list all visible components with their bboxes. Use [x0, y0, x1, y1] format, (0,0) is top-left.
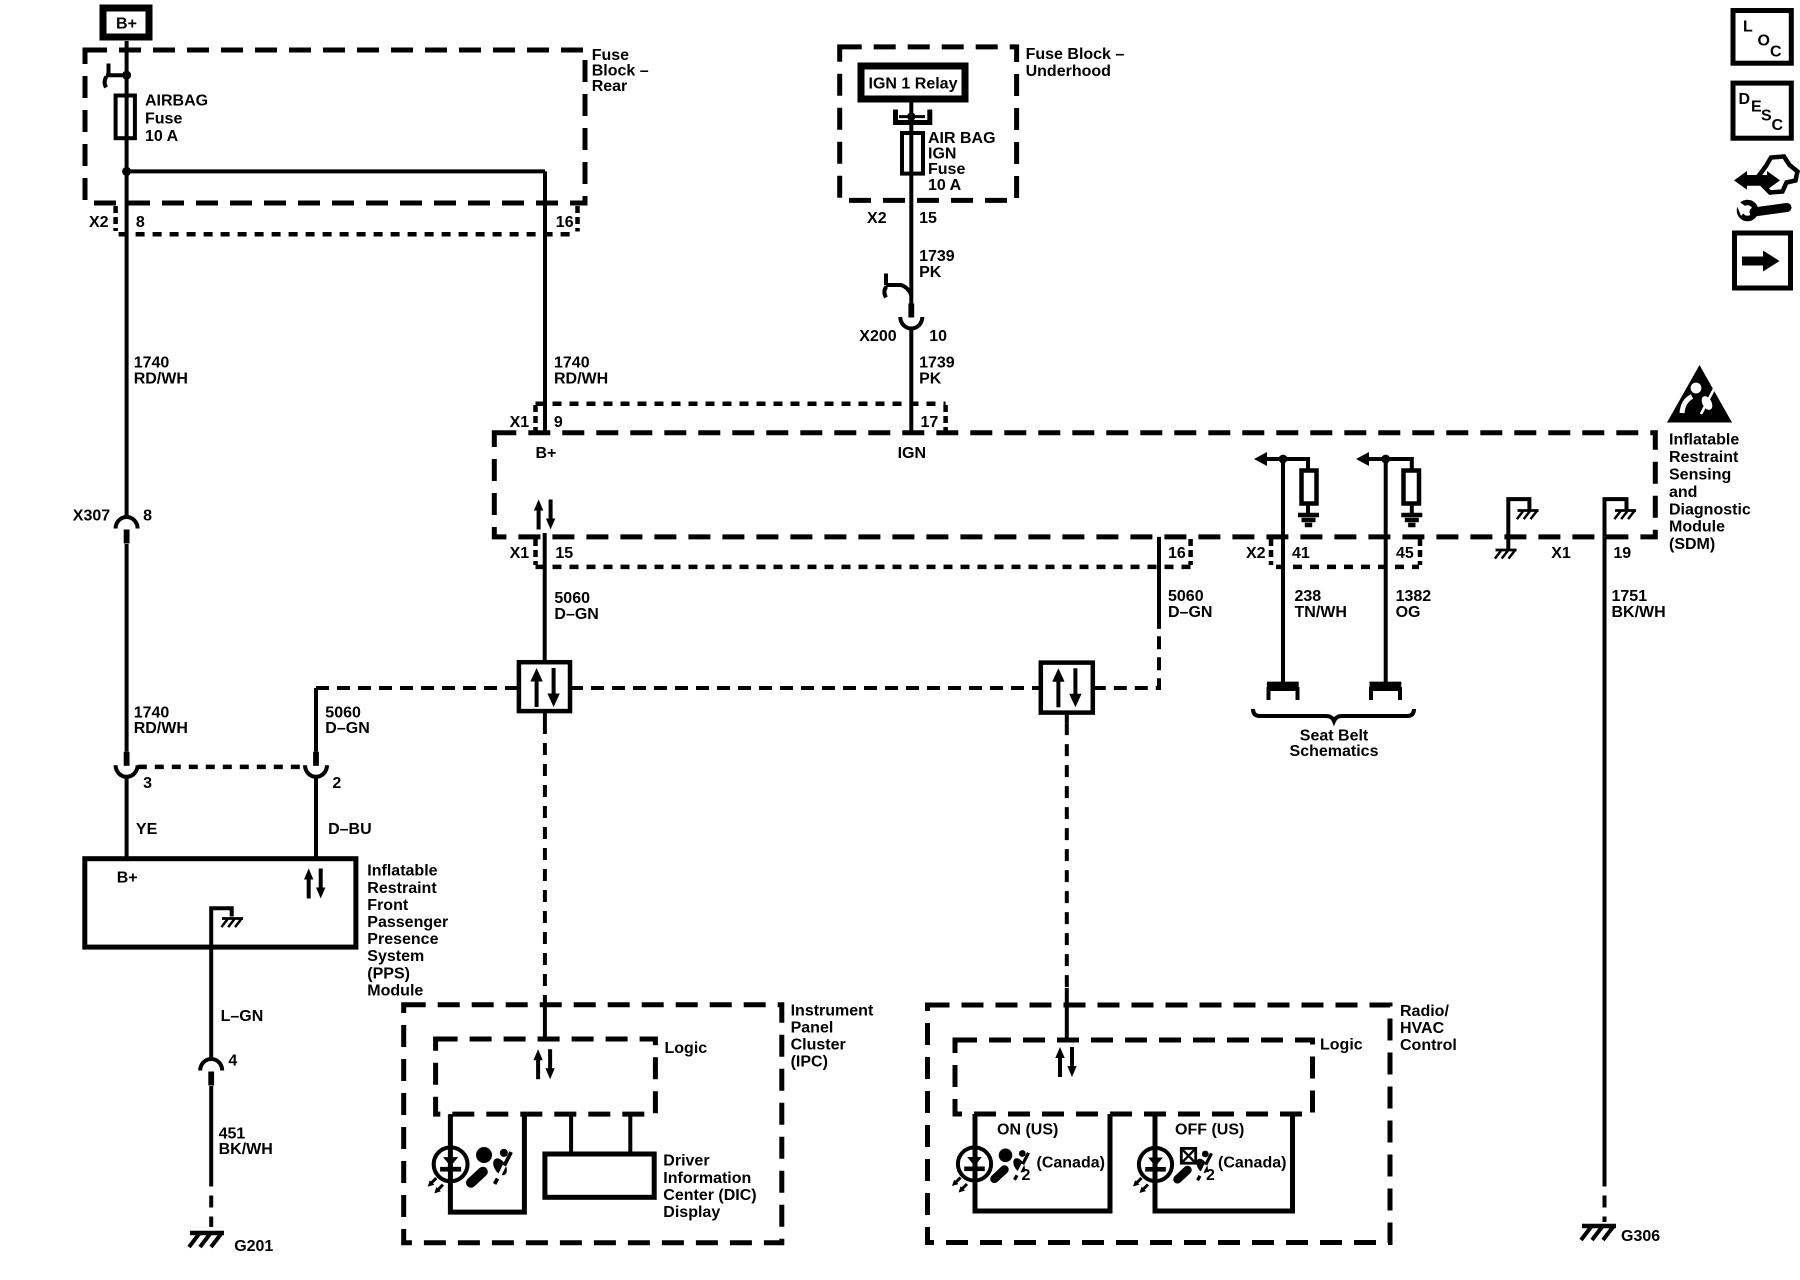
svg-text:19: 19	[1613, 545, 1631, 562]
svg-text:O: O	[1758, 33, 1770, 50]
PPS serial data arrows	[304, 869, 325, 899]
svg-text:10 A: 10 A	[928, 177, 962, 194]
svg-text:Instrument: Instrument	[791, 1003, 874, 1020]
IPC airbag telltale icon	[471, 1147, 511, 1184]
dashed wire serial to Radio	[1065, 713, 1069, 724]
svg-text:10: 10	[929, 328, 947, 345]
svg-text:Rear: Rear	[592, 78, 628, 95]
svg-text:8: 8	[143, 508, 152, 525]
IPC logic dashed box	[436, 1039, 656, 1114]
svg-text:1740: 1740	[134, 704, 170, 721]
serial data box right	[1041, 663, 1093, 713]
Radio ON telltale cell	[975, 1114, 1110, 1211]
connector 4	[200, 1059, 222, 1086]
svg-text:Radio/: Radio/	[1400, 1003, 1449, 1020]
dashed wire to G201	[209, 1175, 213, 1228]
svg-text:X2: X2	[89, 214, 109, 231]
svg-text:1740: 1740	[134, 354, 170, 371]
svg-text:and: and	[1669, 484, 1697, 501]
svg-text:41: 41	[1292, 545, 1310, 562]
svg-text:Display: Display	[663, 1204, 720, 1221]
svg-text:Front: Front	[367, 897, 409, 914]
svg-text:L: L	[1743, 19, 1753, 36]
svg-text:D–GN: D–GN	[325, 720, 369, 737]
connector X307 pin 8	[116, 517, 138, 544]
svg-text:System: System	[367, 948, 424, 965]
wire YE	[125, 777, 129, 858]
ground G201	[189, 1233, 224, 1247]
DIC display box	[571, 1114, 630, 1154]
svg-text:2: 2	[1022, 1167, 1031, 1184]
dashed wire serial to IPC	[543, 711, 547, 722]
svg-text:D: D	[1739, 91, 1751, 108]
svg-text:Inflatable: Inflatable	[367, 863, 437, 880]
svg-text:ON (US): ON (US)	[997, 1122, 1058, 1139]
seat belt terminal 41	[1267, 682, 1299, 688]
SDM bottom pin row	[536, 565, 1191, 570]
svg-text:Panel: Panel	[791, 1020, 834, 1037]
svg-text:S: S	[1761, 108, 1772, 125]
svg-text:X2: X2	[1246, 545, 1266, 562]
clip lead at X200	[884, 274, 888, 286]
svg-text:4: 4	[228, 1053, 237, 1070]
svg-text:Seat Belt: Seat Belt	[1300, 727, 1369, 744]
connector X200 pin 10	[900, 304, 922, 329]
dashed wire to G306	[1603, 1175, 1607, 1223]
connector 3 PPS	[116, 752, 138, 777]
svg-text:BK/WH: BK/WH	[219, 1141, 273, 1158]
svg-text:Diagnostic: Diagnostic	[1669, 501, 1751, 518]
svg-text:1739: 1739	[919, 248, 955, 265]
Radio logic dashed box	[955, 1040, 1313, 1114]
wire 5060 pin 16	[1157, 537, 1161, 629]
fuse block rear dashed box	[85, 50, 585, 203]
svg-text:2: 2	[332, 775, 341, 792]
svg-text:BK/WH: BK/WH	[1612, 604, 1666, 621]
svg-text:Fuse: Fuse	[145, 110, 182, 127]
svg-text:Information: Information	[663, 1170, 751, 1187]
svg-text:X1: X1	[510, 545, 530, 562]
svg-text:8: 8	[136, 214, 145, 231]
svg-text:15: 15	[555, 545, 573, 562]
svg-text:IGN 1 Relay: IGN 1 Relay	[869, 76, 958, 93]
svg-text:Underhood: Underhood	[1026, 63, 1111, 80]
svg-text:Fuse Block –: Fuse Block –	[1026, 46, 1125, 63]
svg-text:C: C	[1772, 117, 1784, 134]
svg-text:Schematics: Schematics	[1290, 743, 1379, 760]
svg-text:238: 238	[1295, 588, 1322, 605]
svg-text:Inflatable: Inflatable	[1669, 432, 1739, 449]
svg-text:X1: X1	[510, 414, 530, 431]
svg-text:1751: 1751	[1612, 588, 1648, 605]
SDM internal chassis ground hook pin 19	[1605, 499, 1627, 537]
svg-text:RD/WH: RD/WH	[134, 720, 188, 737]
seat belt terminal 45	[1370, 682, 1402, 688]
svg-text:9: 9	[554, 414, 563, 431]
wire 1740 left vertical B+ feed	[125, 41, 129, 517]
svg-text:Cluster: Cluster	[791, 1037, 846, 1054]
IPC LED indicator	[428, 1147, 468, 1193]
svg-text:Driver: Driver	[663, 1153, 709, 1170]
svg-text:Sensing: Sensing	[1669, 467, 1731, 484]
svg-text:Fuse: Fuse	[928, 161, 965, 178]
svg-text:2: 2	[1206, 1167, 1215, 1184]
svg-text:(Canada): (Canada)	[1037, 1155, 1105, 1172]
svg-text:PK: PK	[919, 264, 942, 281]
SDM internal net 41: arrow resistor ground	[1262, 459, 1308, 471]
svg-text:(IPC): (IPC)	[791, 1054, 828, 1071]
svg-text:X2: X2	[867, 210, 887, 227]
SDM internal net 45: arrow resistor ground	[1363, 459, 1412, 471]
svg-text:(Canada): (Canada)	[1218, 1155, 1286, 1172]
svg-text:17: 17	[921, 414, 939, 431]
connector 2 PPS	[305, 752, 327, 777]
svg-text:16: 16	[556, 214, 574, 231]
PPS module box	[85, 859, 356, 947]
svg-text:L–GN: L–GN	[221, 1008, 264, 1025]
wire D-BU	[314, 777, 318, 858]
svg-text:C: C	[1770, 44, 1782, 61]
svg-text:5060: 5060	[1168, 588, 1204, 605]
wire 451 BK/WH	[209, 1086, 213, 1175]
svg-text:Center (DIC): Center (DIC)	[663, 1187, 756, 1204]
svg-text:IGN: IGN	[898, 445, 926, 462]
svg-text:3: 3	[143, 775, 152, 792]
svg-text:451: 451	[219, 1125, 246, 1142]
serial data dashed bus left run	[316, 686, 519, 690]
svg-text:AIRBAG: AIRBAG	[145, 93, 208, 110]
svg-text:Fuse: Fuse	[592, 47, 629, 64]
IPC telltale cell	[450, 1114, 524, 1212]
svg-text:Module: Module	[367, 982, 423, 999]
wire 1751 pin 19	[1603, 537, 1607, 1175]
svg-text:OFF (US): OFF (US)	[1175, 1122, 1244, 1139]
serial data dashed bus right run	[1093, 633, 1159, 688]
svg-text:16: 16	[1168, 545, 1186, 562]
circuit breaker lead symbol	[107, 64, 111, 76]
SDM module dashed box	[494, 433, 1655, 537]
svg-text:D–GN: D–GN	[554, 606, 598, 623]
svg-text:Presence: Presence	[367, 931, 438, 948]
svg-text:IGN: IGN	[928, 146, 956, 163]
svg-text:OG: OG	[1396, 604, 1421, 621]
svg-text:G306: G306	[1621, 1228, 1660, 1245]
svg-text:YE: YE	[136, 821, 158, 838]
svg-text:Logic: Logic	[1320, 1037, 1363, 1054]
Radio HVAC dashed box	[928, 1005, 1391, 1243]
svg-text:AIR BAG: AIR BAG	[928, 130, 996, 147]
wire 1740 below X307	[125, 544, 129, 752]
svg-text:X307: X307	[73, 508, 110, 525]
junction dot	[122, 167, 131, 176]
svg-text:45: 45	[1396, 545, 1414, 562]
svg-text:Block –: Block –	[592, 63, 649, 80]
svg-text:5060: 5060	[325, 704, 361, 721]
connector pin row X2 rear fuse block	[119, 232, 578, 237]
svg-text:1740: 1740	[554, 354, 590, 371]
svg-text:G201: G201	[234, 1238, 273, 1255]
fuse AIRBAG 10 A	[116, 96, 135, 139]
svg-text:B+: B+	[116, 16, 137, 33]
wire 238 pin 41	[1281, 459, 1285, 683]
icon box DESC	[1733, 83, 1791, 138]
wire L-GN	[209, 947, 213, 1059]
power symbol B+	[103, 8, 149, 37]
icon box LOC	[1733, 11, 1791, 64]
relay output pin bracket	[909, 103, 913, 134]
PPS internal ground hook	[211, 908, 232, 947]
svg-text:Restraint: Restraint	[1669, 449, 1739, 466]
serial data dashed bus middle run	[570, 686, 1041, 690]
wire 1739 PK upper	[909, 174, 913, 304]
fuse block underhood dashed box	[840, 47, 1017, 201]
svg-text:15: 15	[919, 210, 937, 227]
svg-text:X200: X200	[859, 328, 896, 345]
svg-text:Control: Control	[1400, 1037, 1457, 1054]
svg-text:1382: 1382	[1396, 588, 1432, 605]
svg-text:RD/WH: RD/WH	[134, 370, 188, 387]
icon double arrow pointer	[1734, 171, 1780, 190]
svg-text:Module: Module	[1669, 519, 1725, 536]
svg-text:PK: PK	[919, 371, 942, 388]
Radio OFF telltale cell	[1155, 1114, 1293, 1211]
svg-text:(SDM): (SDM)	[1669, 536, 1715, 553]
serial data box left	[519, 662, 570, 711]
svg-text:Restraint: Restraint	[367, 880, 437, 897]
dashed connector link line	[138, 765, 301, 770]
wire junction jumper to pin 16	[127, 169, 545, 173]
SDM warning triangle icon	[1667, 365, 1732, 423]
svg-text:Passenger: Passenger	[367, 914, 448, 931]
wire 1740 right vertical to SDM pin 9	[543, 171, 547, 432]
SDM internal chassis ground hook left	[1508, 499, 1529, 551]
ground G306	[1581, 1226, 1616, 1240]
svg-text:X1: X1	[1551, 545, 1571, 562]
svg-text:(PPS): (PPS)	[367, 965, 410, 982]
svg-text:5060: 5060	[554, 590, 590, 607]
svg-text:B+: B+	[117, 870, 138, 887]
seat belt brace	[1253, 709, 1414, 721]
svg-text:D–BU: D–BU	[328, 821, 372, 838]
IPC dashed box	[404, 1005, 782, 1243]
icon box right arrow	[1735, 233, 1791, 288]
svg-text:Logic: Logic	[665, 1040, 708, 1057]
svg-text:10 A: 10 A	[145, 128, 179, 145]
relay IGN 1	[861, 66, 965, 99]
svg-text:RD/WH: RD/WH	[554, 370, 608, 387]
SDM serial data arrows	[534, 500, 555, 530]
fuse AIR BAG IGN 10 A	[902, 133, 923, 174]
wire 1739 PK lower	[909, 329, 913, 433]
svg-text:TN/WH: TN/WH	[1295, 604, 1347, 621]
SDM top pin row X1	[536, 401, 946, 406]
wire 1382 pin 45	[1384, 459, 1388, 683]
icon wrench	[1740, 203, 1756, 219]
wire 5060 pin 15	[543, 533, 547, 662]
svg-text:1739: 1739	[919, 355, 955, 372]
Radio OFF airbag icon crossed	[1178, 1148, 1212, 1180]
wire 5060 drop to connector 2	[314, 688, 318, 752]
svg-text:D–GN: D–GN	[1168, 604, 1212, 621]
svg-text:B+: B+	[536, 445, 557, 462]
svg-text:HVAC: HVAC	[1400, 1020, 1445, 1037]
Radio ON airbag icon	[995, 1149, 1029, 1180]
